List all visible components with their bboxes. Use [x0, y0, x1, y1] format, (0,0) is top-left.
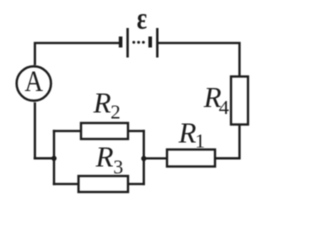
svg-text:A: A	[25, 65, 43, 98]
svg-text:2: 2	[111, 102, 121, 124]
svg-text:1: 1	[195, 130, 205, 152]
svg-text:R: R	[178, 118, 197, 150]
svg-text:3: 3	[113, 156, 123, 178]
svg-text:4: 4	[219, 97, 229, 119]
svg-text:R: R	[92, 88, 111, 120]
svg-text:R: R	[95, 142, 114, 174]
svg-text:ε: ε	[137, 2, 147, 37]
